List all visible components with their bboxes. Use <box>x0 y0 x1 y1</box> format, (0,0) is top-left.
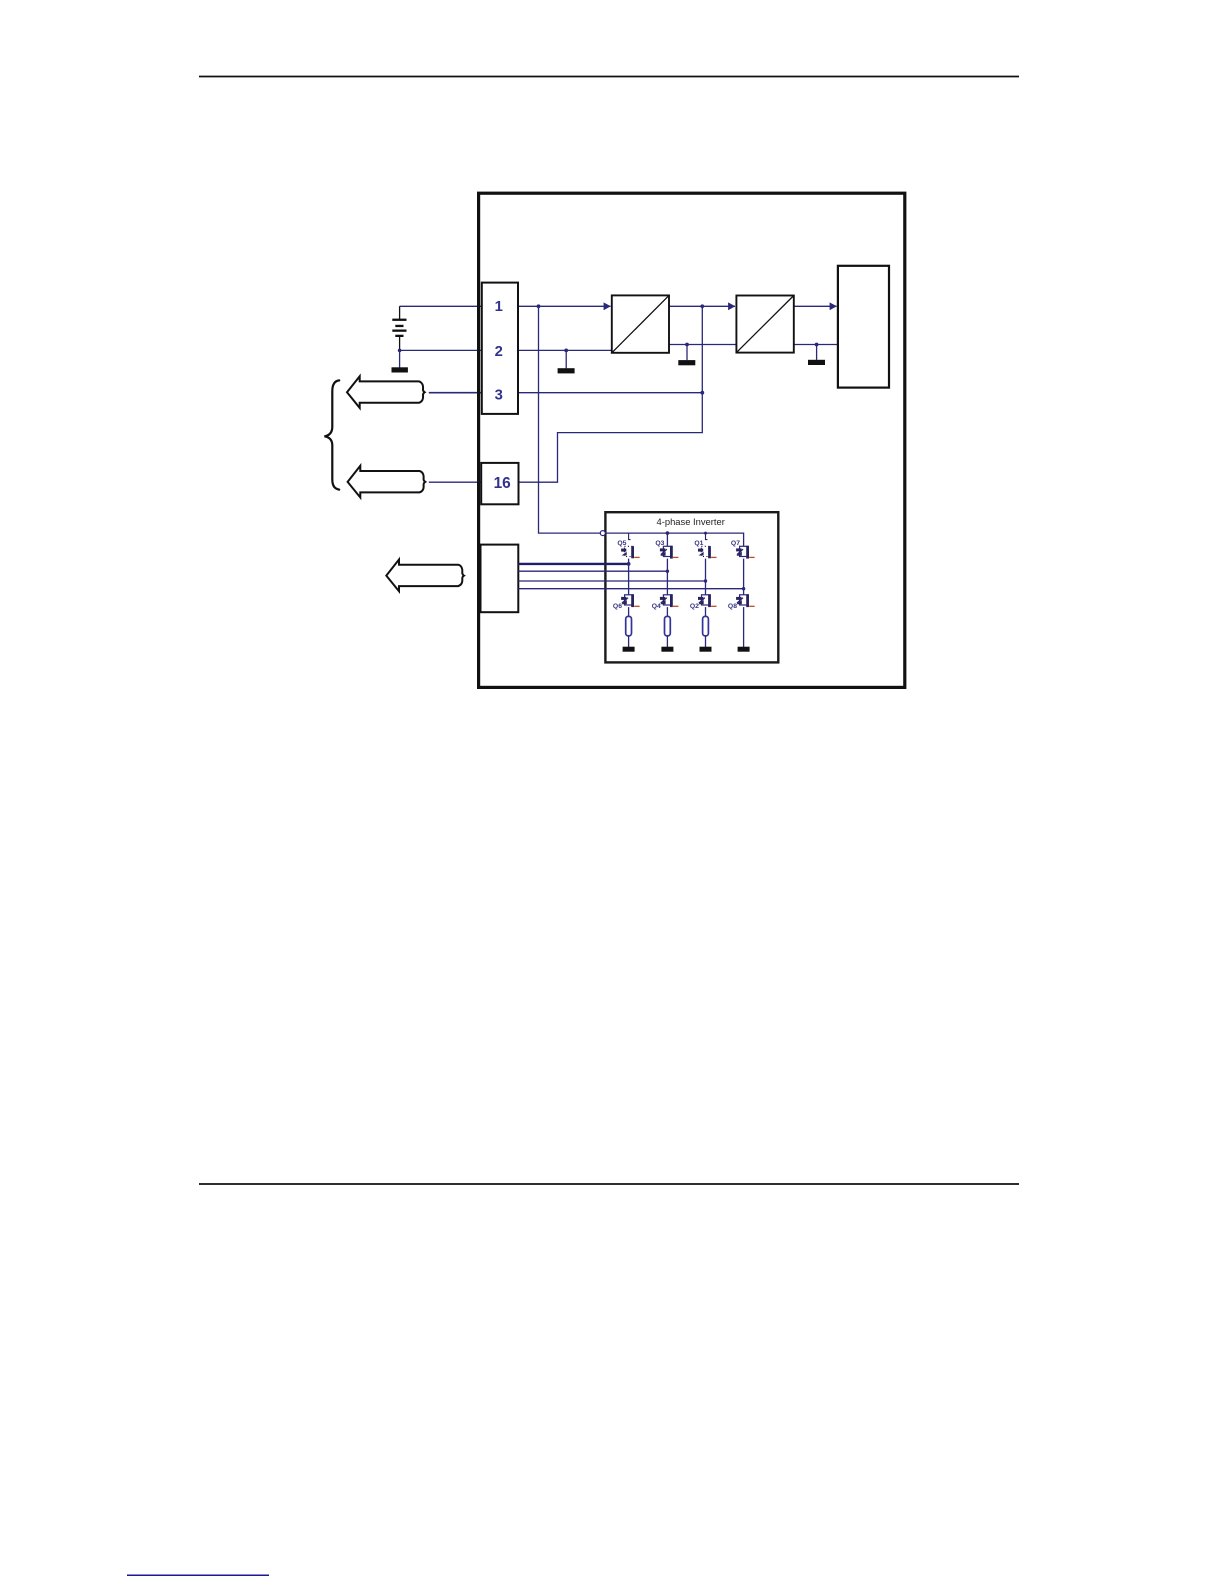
wire col1 mid <box>628 559 630 595</box>
transistor Q1 <box>698 546 711 558</box>
svg-text:Q4: Q4 <box>652 603 661 610</box>
transistor Q5 <box>621 546 634 558</box>
arrowhead into U1 <box>604 302 611 310</box>
arrowhead into U2 <box>728 302 735 310</box>
Q4 red source mark <box>673 605 678 607</box>
svg-text:2: 2 <box>495 344 503 360</box>
node phase D <box>742 587 745 590</box>
battery B1 <box>392 306 406 350</box>
wire phase D <box>518 588 743 590</box>
ground col3 <box>700 647 712 652</box>
Q5 red source mark <box>634 556 639 558</box>
wire col1 to resistor <box>628 607 630 617</box>
header rule <box>199 76 1019 78</box>
output block <box>838 266 889 388</box>
outer block border <box>479 193 905 687</box>
node gnd junction after U2 <box>815 343 819 347</box>
node battery-gnd junction <box>398 349 402 353</box>
svg-text:Q6: Q6 <box>613 603 622 610</box>
lower connector box <box>481 545 519 613</box>
node gnd junction after U1 <box>685 343 689 347</box>
svg-text:Q3: Q3 <box>655 540 664 547</box>
svg-text:4-phase Inverter: 4-phase Inverter <box>657 516 725 527</box>
svg-text:Q1: Q1 <box>694 540 703 547</box>
ground at battery <box>392 350 408 372</box>
footnote separator line <box>127 1574 269 1576</box>
wire phase B <box>518 570 667 572</box>
Q3 red source mark <box>673 556 678 558</box>
ground after U2 <box>808 345 825 366</box>
connector pins 1-3 box <box>482 283 518 414</box>
wire pin1 to DC/DC1 input <box>518 305 611 307</box>
node phase C <box>704 579 707 582</box>
U1 diagonal <box>612 295 669 352</box>
wire arrow2 to pin16 <box>429 481 482 483</box>
Q8 red source mark <box>749 605 754 607</box>
wire vertical DC/DC1 output down through pin3 junction then to pin16 <box>519 306 703 482</box>
node phase A <box>627 562 631 566</box>
block arrow 3 <box>386 560 464 592</box>
node DC/DC1 output junction <box>700 304 704 308</box>
ground col4 <box>738 647 750 652</box>
svg-text:Q5: Q5 <box>617 540 626 547</box>
wire col3 mid <box>705 559 707 595</box>
wire DC/DC1 bottom rail to DC/DC2 <box>669 344 736 346</box>
node pin3 junction <box>700 391 704 395</box>
wire col2 mid <box>666 559 668 595</box>
wire DC/DC2 to output block <box>794 305 837 307</box>
wire pin2 to DC/DC1 bottom <box>518 349 612 351</box>
wire battery- to pin2 <box>400 349 482 351</box>
wire phase A (thick) <box>518 563 628 565</box>
ground col1 <box>623 647 635 652</box>
transistor Q4 <box>660 594 673 607</box>
wire battery+ to pin1 <box>400 305 482 307</box>
wire col4 mid <box>743 559 745 595</box>
wire resistor R2 to ground <box>666 636 668 647</box>
wire resistor R3 to ground <box>705 636 707 647</box>
svg-text:1: 1 <box>495 299 503 315</box>
wire pin3 to vertical junction <box>518 392 702 394</box>
node input circle <box>600 531 605 536</box>
resistor R1 <box>626 616 632 636</box>
wire col3 drain stub <box>706 533 708 540</box>
svg-text:16: 16 <box>494 475 511 492</box>
transistor Q2 <box>698 594 711 607</box>
brace grouping pins 3..16 <box>324 380 339 489</box>
ground after U1 <box>678 345 695 366</box>
wire long vertical from pin1 junction to inverter input <box>539 306 601 533</box>
svg-text:Q8: Q8 <box>728 603 737 610</box>
wire DC/DC1 to DC/DC2 <box>669 305 735 307</box>
transistor Q7 <box>736 546 749 559</box>
wire col3 to resistor <box>705 607 707 617</box>
wire resistor R1 to ground <box>628 636 630 647</box>
U2 diagonal <box>736 296 793 353</box>
node pin1 junction <box>537 304 541 308</box>
Q2 red source mark <box>711 605 716 607</box>
ground at pin2 line <box>558 350 575 373</box>
svg-text:Q2: Q2 <box>690 603 699 610</box>
ground col2 <box>661 647 673 652</box>
DC/DC converter U2 <box>736 296 793 353</box>
footer rule <box>199 1183 1019 1185</box>
node rail col3 <box>704 532 707 535</box>
wire col1 drain stub <box>629 533 631 540</box>
wire col2 to resistor <box>666 607 668 617</box>
Q7 red source mark <box>749 556 754 558</box>
node rail col2 <box>666 531 670 535</box>
transistor Q6 <box>621 594 634 607</box>
Q6 red source mark <box>634 605 639 607</box>
arrowhead into output block <box>830 302 837 310</box>
wire arrow1 to pin3 <box>429 392 482 394</box>
svg-text:3: 3 <box>495 388 503 404</box>
resistor R2 <box>665 616 671 636</box>
wire col2 drain stub <box>666 533 668 546</box>
transistor Q3 <box>660 546 673 559</box>
node phase B <box>666 570 669 573</box>
wire phase C <box>518 580 705 582</box>
resistor R3 <box>703 616 709 636</box>
node gnd junction on pin2 line <box>564 349 568 353</box>
wire col4 to ground <box>743 607 745 647</box>
connector pin 16 box <box>481 463 518 504</box>
DC/DC converter U1 <box>612 295 669 352</box>
4-phase inverter box <box>605 512 778 662</box>
transistor Q8 <box>736 594 749 607</box>
block arrow 2 <box>348 466 426 498</box>
block arrow 1 <box>347 376 425 408</box>
Q1 red source mark <box>711 556 716 558</box>
wire top rail of inverter <box>605 533 743 546</box>
svg-text:Q7: Q7 <box>731 540 740 547</box>
wire DC/DC2 bottom rail to output block <box>794 344 838 346</box>
